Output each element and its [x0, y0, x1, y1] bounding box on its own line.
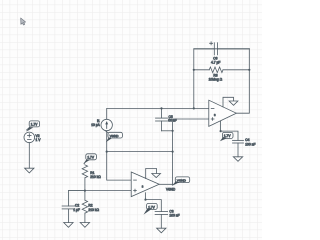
- capacitor C6: [194, 42, 250, 55]
- svg-text:C2: C2: [75, 203, 79, 207]
- node dot R3 left: [193, 69, 195, 71]
- current source I1: [101, 119, 112, 130]
- flag 1.7V at R1: [84, 154, 97, 164]
- node dot on I1 wire: [106, 151, 108, 153]
- node dot C5 tap: [160, 107, 162, 109]
- capacitor C2: [62, 191, 85, 223]
- resistor R2: [82, 191, 87, 223]
- op-amp U1 power pin and V- arrow: [223, 97, 238, 107]
- wire I1 bottom to opamp U2 minus: [107, 131, 132, 181]
- wire feedback left vertical: [194, 49, 250, 109]
- ground under V2: [25, 168, 34, 173]
- svg-text:100 nF: 100 nF: [169, 214, 179, 218]
- flag VGND at U2 output: [172, 177, 190, 186]
- svg-text:1 µF: 1 µF: [73, 208, 80, 212]
- svg-text:VGND: VGND: [110, 134, 120, 138]
- ground under C2: [64, 223, 73, 228]
- svg-text:1.7V: 1.7V: [31, 123, 38, 127]
- svg-text:10Meg Ω: 10Meg Ω: [209, 78, 223, 82]
- flag 1.7V at U2 bottom: [144, 203, 158, 214]
- capacitor C3: [146, 200, 168, 229]
- wire C5 bottom to node: [162, 130, 173, 132]
- svg-text:10 µA: 10 µA: [91, 123, 100, 127]
- mouse cursor: [21, 18, 26, 25]
- wire U2 output: [159, 183, 172, 185]
- resistor R3: [194, 67, 250, 73]
- capacitor C4: [221, 131, 244, 157]
- node dot: [172, 130, 174, 132]
- flag 1.7V at U1 bottom: [220, 132, 233, 141]
- svg-text:100 nF: 100 nF: [245, 142, 255, 146]
- wire U1 bottom pin: [220, 121, 222, 131]
- ground under C4: [233, 157, 242, 162]
- svg-text:VGND: VGND: [166, 187, 176, 191]
- node dot under U1: [220, 130, 222, 132]
- voltage source V2: [24, 132, 35, 143]
- svg-text:R2: R2: [88, 203, 92, 207]
- flag 1.7V at V2: [26, 121, 39, 132]
- op-amp U2 power pin and V- arrow: [146, 169, 161, 179]
- wire opamp U2 plus input: [68, 190, 131, 192]
- node dot R3 right: [248, 69, 250, 71]
- op-amp U2 (bottom): [131, 172, 159, 197]
- op-amp U1 (top): [209, 100, 237, 126]
- svg-text:1.7V: 1.7V: [224, 134, 231, 138]
- wire VGND link horizontal: [107, 151, 173, 153]
- svg-text:VGND: VGND: [177, 178, 187, 182]
- wire U2 bottom pin: [145, 193, 147, 200]
- node dot VGND branch: [172, 151, 174, 153]
- svg-text:4.7 µF: 4.7 µF: [211, 61, 220, 65]
- ground under R2: [80, 223, 89, 228]
- svg-text:210 kΩ: 210 kΩ: [88, 208, 99, 212]
- node dot under U2: [144, 199, 146, 201]
- svg-text:1.7V: 1.7V: [87, 155, 94, 159]
- wire U1 output: [236, 49, 249, 113]
- resistor R1: [82, 165, 87, 191]
- svg-text:210 kΩ: 210 kΩ: [90, 175, 101, 179]
- wire top from I1 to opamp U1 minus input: [107, 108, 209, 119]
- wire V2 to ground: [28, 143, 30, 169]
- svg-text:1 V: 1 V: [36, 138, 42, 142]
- wire opamp U1 plus input: [173, 119, 209, 185]
- node dot R1 R2 junction: [84, 190, 86, 192]
- ground under C3: [157, 228, 166, 233]
- node dot feedback bottom: [193, 107, 195, 109]
- flag VGND at I1: [106, 131, 123, 142]
- capacitor C5: [156, 108, 168, 130]
- svg-text:1.7V: 1.7V: [148, 205, 155, 209]
